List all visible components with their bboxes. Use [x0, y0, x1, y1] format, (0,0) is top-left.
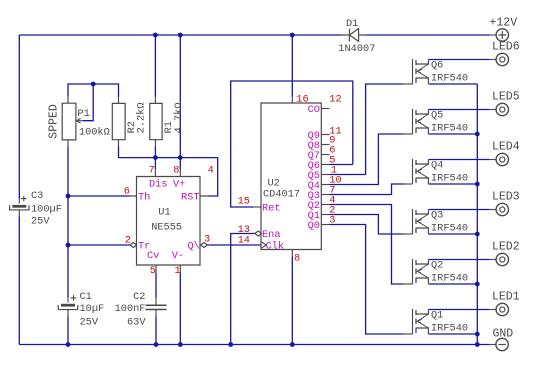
svg-text:Q0: Q0: [308, 220, 320, 232]
svg-text:Clk: Clk: [266, 241, 285, 253]
svg-text:Th: Th: [138, 191, 150, 203]
svg-text:SPPED: SPPED: [48, 104, 61, 139]
svg-text:+12V: +12V: [490, 17, 518, 30]
svg-text:D1: D1: [346, 18, 358, 30]
svg-text:1N4007: 1N4007: [338, 43, 375, 55]
svg-text:LED1: LED1: [492, 290, 520, 303]
svg-text:15: 15: [238, 196, 250, 208]
svg-text:CO: CO: [308, 104, 320, 116]
svg-text:2.2kΩ: 2.2kΩ: [136, 102, 148, 133]
svg-text:100kΩ: 100kΩ: [79, 127, 110, 139]
svg-text:100µF: 100µF: [31, 204, 62, 216]
svg-text:2: 2: [125, 234, 131, 246]
svg-text:LED6: LED6: [492, 40, 520, 53]
svg-text:25V: 25V: [80, 316, 99, 328]
svg-text:Cv: Cv: [147, 250, 159, 262]
svg-text:U2: U2: [268, 177, 280, 189]
svg-text:GND: GND: [493, 327, 514, 340]
svg-text:100nF: 100nF: [115, 303, 146, 315]
svg-text:4: 4: [208, 164, 214, 176]
svg-text:Dis: Dis: [149, 179, 168, 191]
svg-text:IRF540: IRF540: [431, 123, 468, 135]
svg-text:6: 6: [124, 185, 130, 197]
svg-text:C2: C2: [133, 291, 145, 303]
svg-text:Q\: Q\: [188, 241, 200, 253]
svg-text:IRF540: IRF540: [431, 273, 468, 285]
svg-text:IRF540: IRF540: [431, 223, 468, 235]
svg-text:LED4: LED4: [492, 140, 520, 153]
svg-text:NE555: NE555: [151, 222, 182, 234]
svg-text:Q3: Q3: [431, 210, 443, 222]
svg-text:14: 14: [238, 235, 250, 247]
svg-text:IRF540: IRF540: [431, 173, 468, 185]
svg-text:8: 8: [173, 164, 179, 176]
svg-text:CD4017: CD4017: [263, 189, 300, 201]
svg-text:V-: V-: [172, 250, 184, 262]
svg-text:RST: RST: [181, 191, 200, 203]
svg-text:4.7kΩ: 4.7kΩ: [173, 102, 185, 133]
svg-text:5: 5: [150, 265, 156, 277]
svg-text:Ena: Ena: [262, 229, 281, 241]
svg-text:1: 1: [175, 265, 181, 277]
svg-text:Q2: Q2: [431, 260, 443, 272]
svg-text:Q4: Q4: [431, 160, 443, 172]
svg-text:Q6: Q6: [431, 60, 443, 72]
svg-text:25V: 25V: [31, 216, 50, 228]
svg-text:V+: V+: [173, 179, 185, 191]
svg-text:LED5: LED5: [492, 90, 520, 103]
svg-text:C1: C1: [80, 291, 92, 303]
svg-text:3: 3: [329, 215, 335, 227]
svg-text:IRF540: IRF540: [431, 73, 468, 85]
svg-text:12: 12: [329, 93, 341, 105]
svg-text:U1: U1: [158, 207, 170, 219]
svg-text:8: 8: [294, 253, 300, 265]
svg-text:Q5: Q5: [431, 110, 443, 122]
svg-text:Ret: Ret: [262, 203, 281, 215]
svg-text:Q1: Q1: [431, 310, 443, 322]
svg-text:10µF: 10µF: [80, 303, 105, 315]
svg-text:63V: 63V: [127, 316, 146, 328]
svg-text:LED3: LED3: [492, 190, 520, 203]
svg-text:C3: C3: [31, 190, 43, 202]
svg-text:IRF540: IRF540: [431, 323, 468, 335]
svg-text:LED2: LED2: [492, 240, 520, 253]
svg-text:7: 7: [149, 164, 155, 176]
svg-text:P1: P1: [77, 108, 89, 120]
svg-text:3: 3: [204, 233, 210, 245]
